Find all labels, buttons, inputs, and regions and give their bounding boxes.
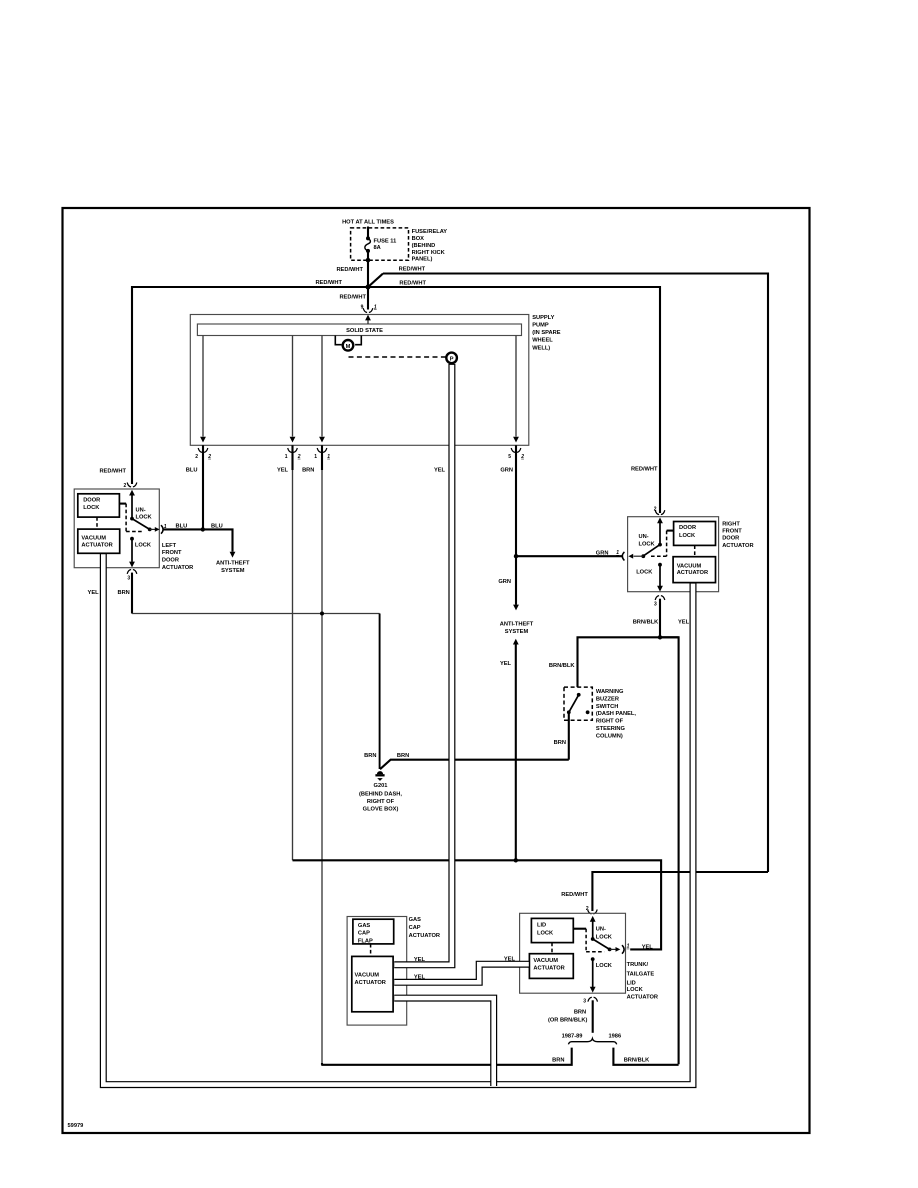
svg-text:1: 1 xyxy=(627,944,630,950)
svg-text:GAS: GAS xyxy=(358,923,371,929)
svg-text:LOCK: LOCK xyxy=(679,533,696,539)
un-lock contact (trunk) xyxy=(591,937,595,941)
vacuum actuator (left door) xyxy=(78,529,120,553)
svg-text:BRN: BRN xyxy=(574,1009,586,1015)
svg-text:ACTUATOR: ACTUATOR xyxy=(162,565,193,571)
svg-text:DOOR: DOOR xyxy=(679,525,696,531)
trunk/tailgate lid lock actuator box xyxy=(520,913,626,993)
svg-text:RED/WHT: RED/WHT xyxy=(99,468,126,474)
vacuum actuator (trunk) xyxy=(529,954,573,979)
wire RED/WHT right bus to trunk pin 2 xyxy=(592,872,768,911)
svg-text:LOCK: LOCK xyxy=(627,987,644,993)
main junction node RED/WHT xyxy=(366,285,371,290)
pump internal wire to pin GRN xyxy=(515,336,517,437)
pump internal wire to pin YEL xyxy=(292,336,294,437)
svg-text:COLUMN): COLUMN) xyxy=(596,733,623,739)
wire BRN left door to ground net xyxy=(131,573,133,614)
svg-text:8A: 8A xyxy=(374,245,381,251)
wire BRN buzzer to ground xyxy=(380,760,569,770)
svg-text:ACTUATOR: ACTUATOR xyxy=(355,980,386,986)
svg-text:1: 1 xyxy=(314,454,317,460)
connector at supply pump pin xyxy=(363,308,373,312)
svg-text:ACTUATOR: ACTUATOR xyxy=(81,543,112,549)
svg-text:BRN/BLK: BRN/BLK xyxy=(549,663,575,669)
svg-text:FUSE 11: FUSE 11 xyxy=(374,239,397,245)
svg-text:BRN/BLK: BRN/BLK xyxy=(624,1058,650,1064)
un-lock contact (right) xyxy=(658,543,662,547)
svg-text:1987-89: 1987-89 xyxy=(562,1034,583,1040)
svg-text:LOCK: LOCK xyxy=(596,934,613,940)
svg-text:2: 2 xyxy=(207,454,211,460)
warning buzzer switch box (dashed) xyxy=(564,687,592,720)
svg-text:VACUUM: VACUUM xyxy=(81,536,106,542)
wire YEL bus to trunk pin 1 xyxy=(293,860,662,949)
pressure switch P xyxy=(446,353,457,364)
lock contact + wire to pin 3 xyxy=(130,537,134,541)
wire YEL up-arrow to anti-theft xyxy=(513,639,519,645)
svg-text:RED/WHT: RED/WHT xyxy=(336,267,363,273)
svg-text:LOCK: LOCK xyxy=(636,570,653,576)
inline connector pin 1 (left door) xyxy=(161,525,163,534)
vacuum hose: gas cap port B to trunk vacuum actuator xyxy=(394,964,529,982)
vacuum hose: pressure switch P to gas cap port A xyxy=(394,364,452,965)
switch common arrow (pin2) left door xyxy=(129,490,135,496)
junction BRN/BLK xyxy=(658,635,662,639)
right front door actuator box xyxy=(628,517,719,592)
fuse F11 8A xyxy=(366,236,370,240)
svg-text:RED/WHT: RED/WHT xyxy=(399,267,426,273)
mechanical link lid lock to switch blade xyxy=(573,928,586,930)
gas cap actuator box xyxy=(347,917,407,1026)
svg-text:ACTUATOR: ACTUATOR xyxy=(627,995,658,1001)
switch common arrow (pin2) trunk xyxy=(590,916,596,922)
svg-text:(OR BRN/BLK): (OR BRN/BLK) xyxy=(548,1017,588,1023)
door lock unit (left) xyxy=(78,494,120,517)
svg-text:BOX: BOX xyxy=(412,236,425,242)
pin 3 left door xyxy=(127,570,137,574)
switch blade right door xyxy=(643,545,660,556)
svg-text:3: 3 xyxy=(127,575,130,581)
mechanical link (dashed) motor to pressure switch xyxy=(349,356,446,358)
buzzer switch contacts and blade xyxy=(577,693,581,697)
svg-text:1: 1 xyxy=(285,454,288,460)
svg-text:BRN: BRN xyxy=(554,740,566,746)
svg-text:TAILGATE: TAILGATE xyxy=(627,971,655,977)
svg-text:SUPPLY: SUPPLY xyxy=(532,315,554,321)
svg-text:BRN: BRN xyxy=(397,753,409,759)
svg-text:M: M xyxy=(346,344,351,350)
wire BRN/BLK right door pin3 down xyxy=(659,599,661,638)
connector pump pin 2/2 (BLU) xyxy=(202,445,204,529)
svg-text:3: 3 xyxy=(654,601,657,607)
svg-text:UN-: UN- xyxy=(136,507,146,513)
svg-text:(IN SPARE: (IN SPARE xyxy=(532,330,561,336)
mechanical link door lock to switch blade (right) xyxy=(667,530,674,532)
svg-text:FRONT: FRONT xyxy=(722,529,742,535)
vacuum actuator (right door) xyxy=(673,557,715,583)
svg-text:SOLID STATE: SOLID STATE xyxy=(346,328,383,334)
svg-text:WHEEL: WHEEL xyxy=(532,338,553,344)
svg-text:SYSTEM: SYSTEM xyxy=(221,568,245,574)
svg-text:CAP: CAP xyxy=(358,931,370,937)
un-lock contact xyxy=(130,517,134,521)
svg-text:ACTUATOR: ACTUATOR xyxy=(722,543,753,549)
svg-text:1: 1 xyxy=(374,304,377,310)
connector pump pin 1/1 (BRN) + ground distribution wire down xyxy=(321,445,323,470)
svg-text:LOCK: LOCK xyxy=(83,505,100,511)
svg-text:RED/WHT: RED/WHT xyxy=(631,467,658,473)
svg-text:FRONT: FRONT xyxy=(162,550,182,556)
vacuum hose: gas cap port C to bottom run xyxy=(394,998,494,1086)
wire RED/WHT junction down to pump pin xyxy=(367,287,369,310)
svg-text:RIGHT: RIGHT xyxy=(722,521,740,527)
pump internal wire to pin BRN xyxy=(321,336,323,437)
wire GRN down to anti-theft xyxy=(515,556,517,605)
wire RED/WHT lower bus to right door actuator xyxy=(368,287,660,513)
lock contact + wire to pin 3 (right) xyxy=(658,563,662,567)
dashed link lid lock to vacuum actuator xyxy=(551,943,553,954)
svg-text:YEL: YEL xyxy=(277,467,289,473)
svg-text:DOOR: DOOR xyxy=(83,497,100,503)
fuse/relay box (dashed) xyxy=(351,228,409,260)
svg-text:ACTUATOR: ACTUATOR xyxy=(409,933,440,939)
svg-text:2: 2 xyxy=(124,483,127,489)
svg-text:ACTUATOR: ACTUATOR xyxy=(677,570,708,576)
svg-text:BUZZER: BUZZER xyxy=(596,696,619,702)
junction YEL xyxy=(514,858,518,862)
svg-text:GRN: GRN xyxy=(596,550,609,556)
svg-text:RED/WHT: RED/WHT xyxy=(561,892,588,898)
svg-text:RED/WHT: RED/WHT xyxy=(339,294,366,300)
svg-text:RIGHT OF: RIGHT OF xyxy=(596,719,624,725)
svg-text:VACUUM: VACUUM xyxy=(677,563,702,569)
wire BRN (OR BRN/BLK) trunk pin3 down xyxy=(592,1000,594,1033)
svg-text:SYSTEM: SYSTEM xyxy=(505,629,529,635)
svg-text:FUSE/RELAY: FUSE/RELAY xyxy=(412,229,448,235)
svg-text:5: 5 xyxy=(508,454,511,460)
svg-text:LEFT: LEFT xyxy=(162,543,177,549)
svg-text:P: P xyxy=(450,357,454,363)
svg-text:(BEHIND DASH,: (BEHIND DASH, xyxy=(359,792,402,798)
svg-text:ANTI-THEFT: ANTI-THEFT xyxy=(216,561,250,567)
svg-text:LOCK: LOCK xyxy=(639,542,656,548)
svg-text:UN-: UN- xyxy=(596,927,606,933)
svg-text:2: 2 xyxy=(297,454,301,460)
motor M1 brackets xyxy=(335,336,361,345)
wire BRN buzzer down xyxy=(568,712,570,759)
svg-text:LOCK: LOCK xyxy=(537,930,554,936)
wire GRN pump to right door pin 1 xyxy=(516,555,622,557)
svg-text:VACUUM: VACUUM xyxy=(533,958,558,964)
svg-text:BRN/BLK: BRN/BLK xyxy=(633,619,659,625)
svg-text:59979: 59979 xyxy=(68,1123,84,1129)
svg-text:1: 1 xyxy=(616,550,619,556)
svg-text:UN-: UN- xyxy=(639,534,649,540)
svg-text:3: 3 xyxy=(583,999,586,1005)
wire RED/WHT upper bus to right side xyxy=(383,274,768,873)
svg-text:BRN: BRN xyxy=(364,753,376,759)
wire from HOT bus to fuse xyxy=(367,227,369,238)
svg-text:G201: G201 xyxy=(374,783,388,789)
svg-text:LOCK: LOCK xyxy=(596,963,613,969)
lock contact + wire to pin 3 (trunk) xyxy=(591,957,595,961)
svg-text:LOCK: LOCK xyxy=(135,543,152,549)
svg-text:BRN: BRN xyxy=(302,467,314,473)
svg-text:WELL): WELL) xyxy=(532,345,550,351)
svg-text:BLU: BLU xyxy=(211,524,223,530)
svg-text:1986: 1986 xyxy=(608,1033,621,1039)
connector pump pin 1/2 (YEL) + wire down to trunk bus xyxy=(291,445,293,470)
svg-text:ANTI-THEFT: ANTI-THEFT xyxy=(500,622,534,628)
svg-text:CAP: CAP xyxy=(409,925,421,931)
wire BLU to anti-theft xyxy=(163,529,232,551)
inline connector pin 1 (trunk) xyxy=(622,945,624,954)
svg-text:GRN: GRN xyxy=(498,579,511,585)
wire RED/WHT left to left door actuator xyxy=(132,287,368,484)
svg-text:BLU: BLU xyxy=(186,467,198,473)
svg-text:PUMP: PUMP xyxy=(532,323,549,329)
svg-text:PANEL): PANEL) xyxy=(412,257,433,263)
svg-text:(BEHIND: (BEHIND xyxy=(412,243,436,249)
svg-text:HOT AT ALL TIMES: HOT AT ALL TIMES xyxy=(342,219,394,225)
svg-text:YEL: YEL xyxy=(678,619,690,625)
ground G201 xyxy=(377,771,383,774)
svg-text:LID: LID xyxy=(627,980,636,986)
svg-text:(DASH PANEL,: (DASH PANEL, xyxy=(596,711,636,717)
svg-text:BLU: BLU xyxy=(175,524,187,530)
connector pump pin 5/2 (GRN) xyxy=(515,445,517,556)
svg-text:2: 2 xyxy=(520,454,524,460)
dashed link gas cap flap to vacuum actuator xyxy=(370,944,372,957)
wire RED/WHT diagonal to upper bus xyxy=(368,274,383,288)
svg-text:GAS: GAS xyxy=(409,917,422,923)
junction on fuse box edge xyxy=(366,258,371,263)
supply pump U1 outer box xyxy=(190,315,529,446)
page border frame xyxy=(63,208,810,1133)
mechanical link door lock to switch blade xyxy=(119,503,126,505)
pump internal wire to pin BLU xyxy=(202,336,204,437)
wire BRN/BLK elbow to 1986 branch xyxy=(613,637,678,1065)
svg-text:RIGHT KICK: RIGHT KICK xyxy=(412,250,446,256)
svg-text:DOOR: DOOR xyxy=(722,536,739,542)
svg-text:RED/WHT: RED/WHT xyxy=(315,280,342,286)
wire BRN down to G201 xyxy=(379,614,381,770)
svg-text:GLOVE BOX): GLOVE BOX) xyxy=(363,807,399,813)
svg-text:ACTUATOR: ACTUATOR xyxy=(533,966,564,972)
solid state module bar xyxy=(197,324,521,336)
svg-text:TRUNK/: TRUNK/ xyxy=(627,962,649,968)
switch blade trunk xyxy=(593,939,610,949)
vacuum actuator (gas cap) xyxy=(352,956,393,1011)
dashed link door lock to vacuum actuator xyxy=(96,517,98,529)
inline connector pin 1 (right door) xyxy=(622,552,624,561)
wire BRN/BLK right actuator to buzzer xyxy=(578,637,679,687)
svg-text:LID: LID xyxy=(537,923,546,929)
pin 3 trunk xyxy=(588,997,598,1001)
svg-text:YEL: YEL xyxy=(642,944,654,950)
door lock unit (right) xyxy=(674,522,716,546)
switch common arrow (pin2) right door xyxy=(657,517,663,523)
svg-text:BRN: BRN xyxy=(117,590,129,596)
svg-text:WARNING: WARNING xyxy=(596,689,624,695)
svg-text:GRN: GRN xyxy=(500,467,513,473)
motor M1 xyxy=(343,340,354,351)
wire fuse to junction xyxy=(367,251,369,287)
wire BRN 1987-89 branch xyxy=(321,1048,571,1065)
svg-text:YEL: YEL xyxy=(88,590,100,596)
svg-text:VACUUM: VACUUM xyxy=(355,972,380,978)
dashed link door lock to vacuum actuator (right) xyxy=(694,545,696,556)
switch blade left door xyxy=(132,519,150,530)
left front door actuator box xyxy=(74,489,159,568)
svg-text:BRN: BRN xyxy=(552,1058,564,1064)
junction BRN net xyxy=(320,612,324,616)
lid lock unit xyxy=(531,918,573,942)
svg-text:STEERING: STEERING xyxy=(596,726,626,732)
pin 3 right door xyxy=(655,596,665,600)
arrow into solid state xyxy=(367,318,369,324)
svg-text:RED/WHT: RED/WHT xyxy=(399,280,426,286)
svg-text:SWITCH: SWITCH xyxy=(596,704,618,710)
svg-text:RIGHT OF: RIGHT OF xyxy=(367,799,395,805)
svg-text:DOOR: DOOR xyxy=(162,558,179,564)
svg-text:LOCK: LOCK xyxy=(136,515,153,521)
svg-text:YEL: YEL xyxy=(434,467,446,473)
svg-text:YEL: YEL xyxy=(500,661,512,667)
svg-text:FLAP: FLAP xyxy=(358,939,373,945)
svg-text:2: 2 xyxy=(195,454,198,460)
svg-text:1: 1 xyxy=(327,454,330,460)
vacuum hose: left door to right door along bottom xyxy=(103,554,693,1085)
gas cap flap unit xyxy=(353,919,394,944)
